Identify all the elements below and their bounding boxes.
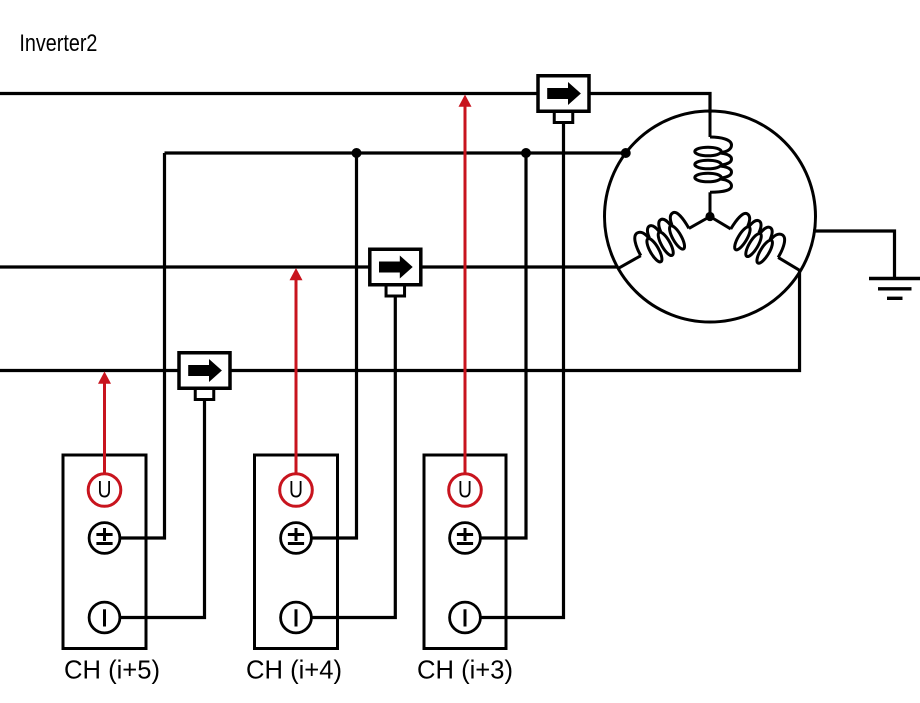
voltage probe arrow to phase 2 (290, 268, 303, 474)
wire phase line 3 (bottom, y=370.5) (0, 270, 800, 370)
channel box CH (i+5) (63, 455, 146, 649)
motor star point junction (705, 212, 714, 221)
terminal I CH (i+5) (89, 602, 120, 633)
channel box CH (i+4) (255, 455, 338, 649)
svg-text:U: U (458, 477, 472, 504)
svg-text:Inverter2: Inverter2 (19, 30, 97, 57)
voltage probe arrow to phase 1 (459, 95, 472, 475)
wire phase line 2 (y=267) (0, 265, 619, 268)
terminal I CH (i+3) (450, 602, 481, 633)
terminal +/- CH (i+4) (281, 523, 312, 554)
wire vertical bus to CH(i+3) +/- (465, 153, 526, 538)
ground symbol (869, 279, 920, 299)
motor winding lower-left (608, 198, 718, 282)
svg-text:U: U (98, 477, 112, 504)
wire sensor CT1 output to CH(i+5) I (105, 397, 205, 618)
motor winding top (695, 111, 732, 217)
channel box CH (i+3) (424, 455, 506, 649)
terminal I CH (i+4) (281, 602, 312, 633)
terminal +/- CH (i+5) (89, 523, 120, 554)
svg-text:U: U (289, 477, 303, 504)
svg-text:CH (i+3): CH (i+3) (417, 655, 513, 685)
junction node sense bus to motor frame (621, 148, 631, 158)
voltage probe arrow to phase 3 (98, 372, 111, 475)
motor winding lower-right (702, 198, 811, 284)
junction node on sense bus at x=356.5 (352, 148, 362, 158)
terminal U CH (i+4) (280, 474, 313, 507)
current sensor CT3 (538, 76, 589, 123)
wire sensor CT3 output to CH(i+3) I (465, 120, 564, 618)
junction node on sense bus at x=526 (521, 148, 531, 158)
wire motor frame to earth (813, 231, 895, 277)
terminal U CH (i+3) (449, 474, 482, 507)
terminal +/- CH (i+3) (450, 523, 481, 554)
wire sense bus (y=153) from corner to motor (165, 151, 626, 154)
svg-text:CH (i+5): CH (i+5) (64, 655, 160, 685)
motor M1 stator circle (605, 111, 816, 322)
wire vertical bus to CH(i+4) +/- (296, 153, 357, 538)
svg-text:CH (i+4): CH (i+4) (246, 655, 342, 685)
wire vertical bus to CH(i+5) +/- (105, 153, 165, 538)
wire phase line 1 (top, y=93.5) (0, 94, 710, 114)
terminal U CH (i+5) (88, 474, 121, 507)
current sensor CT2 (370, 249, 421, 296)
wire sensor CT2 output to CH(i+4) I (296, 293, 395, 618)
current sensor CT1 (179, 353, 230, 400)
